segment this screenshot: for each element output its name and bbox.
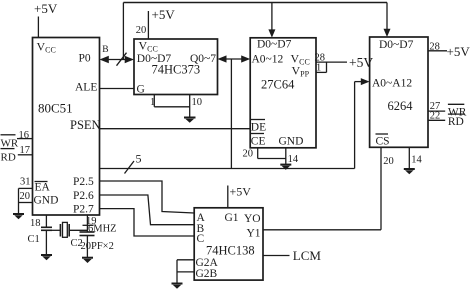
- pin 14 GND stub (27C64): [286, 148, 299, 165]
- pin 14 GND stub (6264): [409, 147, 422, 168]
- svg-text:74HC373: 74HC373: [152, 62, 201, 76]
- pin 1 / pin 10 grounding of 74HC373: [150, 95, 202, 118]
- svg-text:C1: C1: [28, 234, 40, 245]
- svg-text:P2.5: P2.5: [73, 176, 94, 188]
- svg-text:20: 20: [243, 148, 254, 159]
- wire P2.7 to C: [100, 209, 195, 236]
- ground (74HC138): [172, 284, 183, 289]
- svg-text:G: G: [137, 83, 145, 95]
- ground (C2): [82, 258, 93, 263]
- svg-text:YO: YO: [244, 213, 261, 225]
- svg-text:+5V: +5V: [34, 1, 58, 16]
- ground (27C64): [280, 165, 291, 170]
- svg-text:C: C: [197, 233, 205, 245]
- svg-text:C2: C2: [71, 238, 83, 249]
- pin 28 to +5V (6264): [428, 41, 470, 59]
- svg-text:5: 5: [136, 152, 142, 166]
- svg-text:WR: WR: [1, 138, 19, 150]
- svg-text:GND: GND: [279, 135, 304, 147]
- svg-text:D0~D7: D0~D7: [379, 39, 414, 51]
- wire Y2 to LCM: [263, 255, 290, 257]
- pin 22 RD (6264): [428, 111, 464, 128]
- pin 31 EA: [19, 177, 33, 189]
- ground (C1): [41, 255, 52, 260]
- IC U1 80C51: [33, 38, 101, 216]
- crystal 6MHZ: [60, 222, 116, 237]
- ground (74HC373): [184, 118, 196, 123]
- svg-text:D0~D7: D0~D7: [257, 38, 292, 50]
- address bus from P2 (5 lines): [100, 152, 355, 174]
- svg-text:G2B: G2B: [196, 268, 218, 280]
- svg-text:+5V: +5V: [447, 44, 471, 59]
- svg-text:Y1: Y1: [247, 228, 261, 240]
- data bus top rail: [123, 3, 387, 60]
- pin 18 wire (XTAL2): [30, 215, 46, 255]
- svg-text:20: 20: [383, 156, 394, 167]
- wire rail to 27C64 D0~D7: [268, 3, 275, 38]
- wire address bus branch down: [230, 59, 232, 169]
- svg-text:CE: CE: [251, 135, 266, 147]
- svg-text:31: 31: [20, 177, 31, 188]
- pin 28 Vcc / pin 1 Vpp to +5V: [315, 53, 374, 74]
- svg-text:GND: GND: [34, 195, 59, 207]
- svg-text:20: 20: [136, 25, 147, 36]
- power +5V (74HC373 pin 20): [136, 7, 176, 39]
- wire P2.5 to A: [100, 181, 195, 213]
- pin 19 wire (XTAL1): [83, 215, 97, 257]
- svg-text:EA: EA: [35, 182, 51, 194]
- svg-text:14: 14: [288, 154, 299, 165]
- pin 27 WR (6264): [428, 101, 467, 118]
- svg-text:B: B: [102, 45, 108, 55]
- address bus Q0~7 to 27C64 A0~12: [218, 55, 251, 62]
- svg-text:G1: G1: [225, 212, 239, 224]
- svg-text:14: 14: [411, 155, 422, 166]
- pin 20 CE stub (27C64): [243, 148, 286, 160]
- svg-text:P2.6: P2.6: [73, 190, 94, 202]
- pin 20 GND: [19, 191, 33, 203]
- capacitor C1: [28, 227, 53, 245]
- svg-text:20: 20: [20, 191, 31, 202]
- svg-text:20PF×2: 20PF×2: [81, 241, 114, 252]
- svg-text:RD: RD: [448, 116, 464, 128]
- IC U3 27C64: [250, 38, 316, 148]
- svg-text:ALE: ALE: [75, 82, 97, 94]
- svg-text:10: 10: [192, 97, 203, 108]
- IC U2 74HC373: [134, 39, 218, 96]
- pin 17 RD (left): [1, 145, 33, 164]
- svg-text:PSEN: PSEN: [70, 118, 101, 132]
- capacitor C2: [71, 232, 95, 249]
- wire PSEN to DE: [100, 128, 251, 130]
- svg-text:18: 18: [30, 218, 41, 229]
- pin 20 CS wire to Y1 (6264): [263, 147, 394, 230]
- wire G2A / G2B to ground: [177, 260, 194, 283]
- ground (EA/GND): [13, 214, 24, 219]
- svg-text:LCM: LCM: [293, 248, 322, 263]
- IC U4 6264: [370, 37, 428, 147]
- svg-text:A0~12: A0~12: [252, 53, 284, 65]
- svg-text:CS: CS: [376, 135, 390, 147]
- wire crystal: [46, 229, 87, 231]
- data bus P0 to 74HC373 (node B): [100, 45, 135, 66]
- svg-text:+5V: +5V: [152, 7, 176, 22]
- svg-text:80C51: 80C51: [38, 101, 73, 116]
- svg-text:DE: DE: [251, 121, 266, 133]
- svg-text:+5V: +5V: [230, 185, 252, 199]
- svg-text:A0~A12: A0~A12: [372, 77, 412, 89]
- svg-text:P0: P0: [79, 52, 91, 64]
- wire EA/GND to ground: [18, 188, 20, 214]
- IC U5 74HC138: [194, 208, 263, 280]
- svg-text:P2.7: P2.7: [73, 203, 94, 215]
- power +5V (80C51 Vcc): [34, 1, 58, 38]
- svg-text:74HC138: 74HC138: [206, 244, 255, 258]
- wire ALE to G: [100, 88, 135, 90]
- power +5V (74HC138 G1): [228, 185, 251, 208]
- ground (6264): [404, 169, 415, 174]
- wire P2.6 to B: [100, 195, 195, 225]
- svg-text:RD: RD: [1, 152, 16, 164]
- wire rail to 6264 D0~D7: [384, 3, 391, 38]
- wire address bus to 6264 A0~A12: [355, 78, 370, 168]
- svg-text:6264: 6264: [388, 99, 414, 113]
- svg-text:27C64: 27C64: [261, 77, 295, 91]
- pin 16 WR (left): [1, 130, 33, 150]
